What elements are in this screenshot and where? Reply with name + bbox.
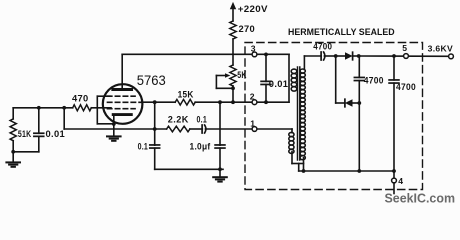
node 0.01 box top bbox=[264, 53, 268, 57]
capacitor 0.1 shunt bbox=[150, 145, 160, 148]
ground cathode bbox=[107, 136, 121, 140]
resistor 51K lead top bbox=[12, 108, 14, 119]
wire cathode to ground bbox=[113, 124, 115, 136]
capacitor 4700 filter2 lead top bbox=[393, 56, 395, 80]
wire grid rail y108 bbox=[13, 107, 72, 109]
svg-text:0.1: 0.1 bbox=[138, 141, 149, 151]
tube grid row 1 bbox=[108, 95, 136, 97]
node D1 cathode junction bbox=[357, 54, 361, 58]
node feedback-drop junction bbox=[153, 127, 157, 131]
wire bottom left bbox=[13, 151, 39, 153]
wire bottom rail right bbox=[299, 170, 394, 172]
resistor 5K rheostat bbox=[230, 65, 236, 86]
node 0.01 grid top bbox=[37, 106, 41, 110]
svg-text:0.1: 0.1 bbox=[197, 115, 208, 125]
transformer feedback spine bbox=[291, 129, 293, 133]
svg-text:51K: 51K bbox=[18, 129, 32, 139]
resistor 470 bbox=[73, 105, 92, 111]
tube cathode bar bbox=[113, 113, 131, 116]
node screen-right junction bbox=[218, 100, 222, 104]
wire 270 to 5K bbox=[232, 39, 234, 65]
capacitor 4700 filter1 lead top bbox=[358, 56, 360, 77]
terminal 2 bbox=[252, 100, 257, 105]
svg-text:4700: 4700 bbox=[396, 82, 416, 92]
svg-text:4: 4 bbox=[398, 176, 403, 186]
terminal output 3.6KV bbox=[449, 54, 454, 59]
svg-text:4700: 4700 bbox=[364, 75, 384, 85]
node A bbox=[334, 54, 338, 58]
resistor 270 bbox=[230, 21, 236, 39]
capacitor 4700 series bbox=[321, 52, 325, 60]
node cathode junction bbox=[112, 122, 116, 126]
svg-text:3.6KV: 3.6KV bbox=[428, 43, 453, 53]
transformer secondary bottom lead bbox=[303, 158, 305, 171]
tube grid row 2 screen bbox=[108, 101, 142, 103]
node wiper tie bbox=[231, 86, 235, 90]
terminal 4 bbox=[392, 178, 397, 183]
rheostat wiper bbox=[225, 73, 230, 78]
resistor 2.2K bbox=[167, 126, 190, 132]
transformer primary spine bbox=[288, 54, 290, 102]
tube grid row 3 control bbox=[108, 108, 136, 110]
capacitor 1.0uF lead bottom bbox=[219, 148, 221, 169]
wire 2.2K to 0.1 bbox=[190, 128, 202, 130]
wire cap to node A bbox=[324, 55, 335, 57]
capacitor 0.01 grid lead top bbox=[38, 108, 40, 134]
wire drop x154.7 bbox=[154, 102, 156, 145]
node 5K bottom junction bbox=[231, 100, 235, 104]
svg-text:2: 2 bbox=[250, 91, 255, 101]
tube V1 envelope bbox=[103, 84, 143, 124]
resistor 15K bbox=[175, 99, 195, 105]
wire rail left riser bbox=[298, 164, 300, 172]
capacitor 4700 filter1 lead bottom bbox=[358, 81, 360, 171]
capacitor 0.01 grid bbox=[34, 133, 44, 136]
capacitor 4700 filter1 bbox=[354, 77, 364, 80]
capacitor 4700 filter2 bbox=[389, 80, 399, 83]
transformer primary winding bbox=[291, 69, 297, 91]
wire screen rail bbox=[142, 101, 175, 103]
wire 5K bottom lead bbox=[232, 86, 234, 102]
svg-text:470: 470 bbox=[72, 94, 89, 104]
transformer core bbox=[297, 67, 299, 160]
capacitor 1.0uF lead top bbox=[219, 102, 221, 145]
svg-text:0.01: 0.01 bbox=[46, 129, 66, 139]
dashed enclosure bbox=[245, 43, 423, 190]
wire secondary top bbox=[304, 55, 321, 57]
svg-text:5: 5 bbox=[402, 43, 407, 53]
node 0.01 box bottom bbox=[264, 100, 268, 104]
svg-text:270: 270 bbox=[239, 24, 256, 34]
capacitor 0.01 box lead top bbox=[265, 54, 267, 81]
transformer feedback winding bbox=[289, 132, 294, 153]
node screen-left junction bbox=[153, 100, 157, 104]
svg-text:15K: 15K bbox=[178, 89, 194, 99]
terminal 3 bbox=[252, 52, 257, 57]
svg-text:1.0μf: 1.0μf bbox=[190, 141, 211, 151]
svg-text:HERMETICALLY SEALED: HERMETICALLY SEALED bbox=[288, 27, 395, 37]
svg-text:SeekIC.com: SeekIC.com bbox=[385, 191, 456, 205]
capacitor 0.01 box bbox=[261, 81, 271, 84]
svg-text:2.2K: 2.2K bbox=[168, 115, 189, 125]
node bottom-left junction bbox=[11, 150, 15, 154]
ground bottom bbox=[219, 169, 221, 177]
wire terminal 4 stub bbox=[393, 171, 395, 178]
node bottom rail junction bbox=[218, 167, 222, 171]
node filter2 top bbox=[392, 54, 396, 58]
supply +220V arrow bbox=[230, 2, 236, 9]
wire bottom rail mid bbox=[155, 168, 223, 170]
terminal 1 bbox=[252, 127, 257, 132]
node D2 anode junction bbox=[357, 101, 361, 105]
svg-text:0.01: 0.01 bbox=[269, 79, 289, 89]
terminal 5 bbox=[404, 54, 409, 59]
transformer secondary winding bbox=[300, 69, 305, 160]
wire drop from grid rail bbox=[63, 108, 65, 129]
capacitor 4700 filter2 lead bottom bbox=[393, 83, 395, 171]
wire terminal 4 tail bbox=[393, 183, 395, 194]
wire node A drop bbox=[335, 56, 337, 103]
node secondary bottom bbox=[302, 169, 306, 173]
tube g3 tie bracket bbox=[96, 96, 98, 124]
wire plate rail y55 bbox=[122, 53, 289, 55]
svg-text:4700: 4700 bbox=[313, 41, 332, 51]
transformer feedback bottom lead bbox=[291, 152, 293, 164]
svg-text:+220V: +220V bbox=[238, 4, 269, 14]
resistor 51K bbox=[10, 119, 16, 141]
node filter2 bottom bbox=[392, 169, 396, 173]
tube plate bar bbox=[113, 88, 132, 91]
transformer secondary riser bbox=[303, 56, 305, 70]
svg-text:1: 1 bbox=[250, 118, 255, 128]
tube plate lead bbox=[121, 54, 123, 89]
wire 51K bottom lead bbox=[12, 141, 14, 152]
wire 0.1 to terminal 1 bbox=[205, 128, 292, 130]
node grid-drop junction bbox=[62, 106, 66, 110]
wire feedback line y129 bbox=[64, 128, 166, 130]
tube cathode lead bbox=[113, 115, 115, 124]
wire top output rail bbox=[359, 55, 451, 57]
capacitor 0.01 box lead bottom bbox=[265, 85, 267, 103]
svg-text:5763: 5763 bbox=[137, 73, 166, 88]
diode D1 bbox=[336, 55, 345, 57]
svg-text:3: 3 bbox=[251, 44, 256, 54]
wire 0.1 shunt to rail bbox=[154, 148, 156, 169]
diode D2 bbox=[336, 102, 345, 104]
node filter1 bottom bbox=[357, 169, 361, 173]
capacitor 0.1 series bbox=[202, 125, 206, 133]
capacitor 0.01 grid lead bottom bbox=[38, 136, 40, 151]
capacitor 1.0uF bbox=[215, 145, 225, 148]
ground left bbox=[12, 152, 14, 162]
